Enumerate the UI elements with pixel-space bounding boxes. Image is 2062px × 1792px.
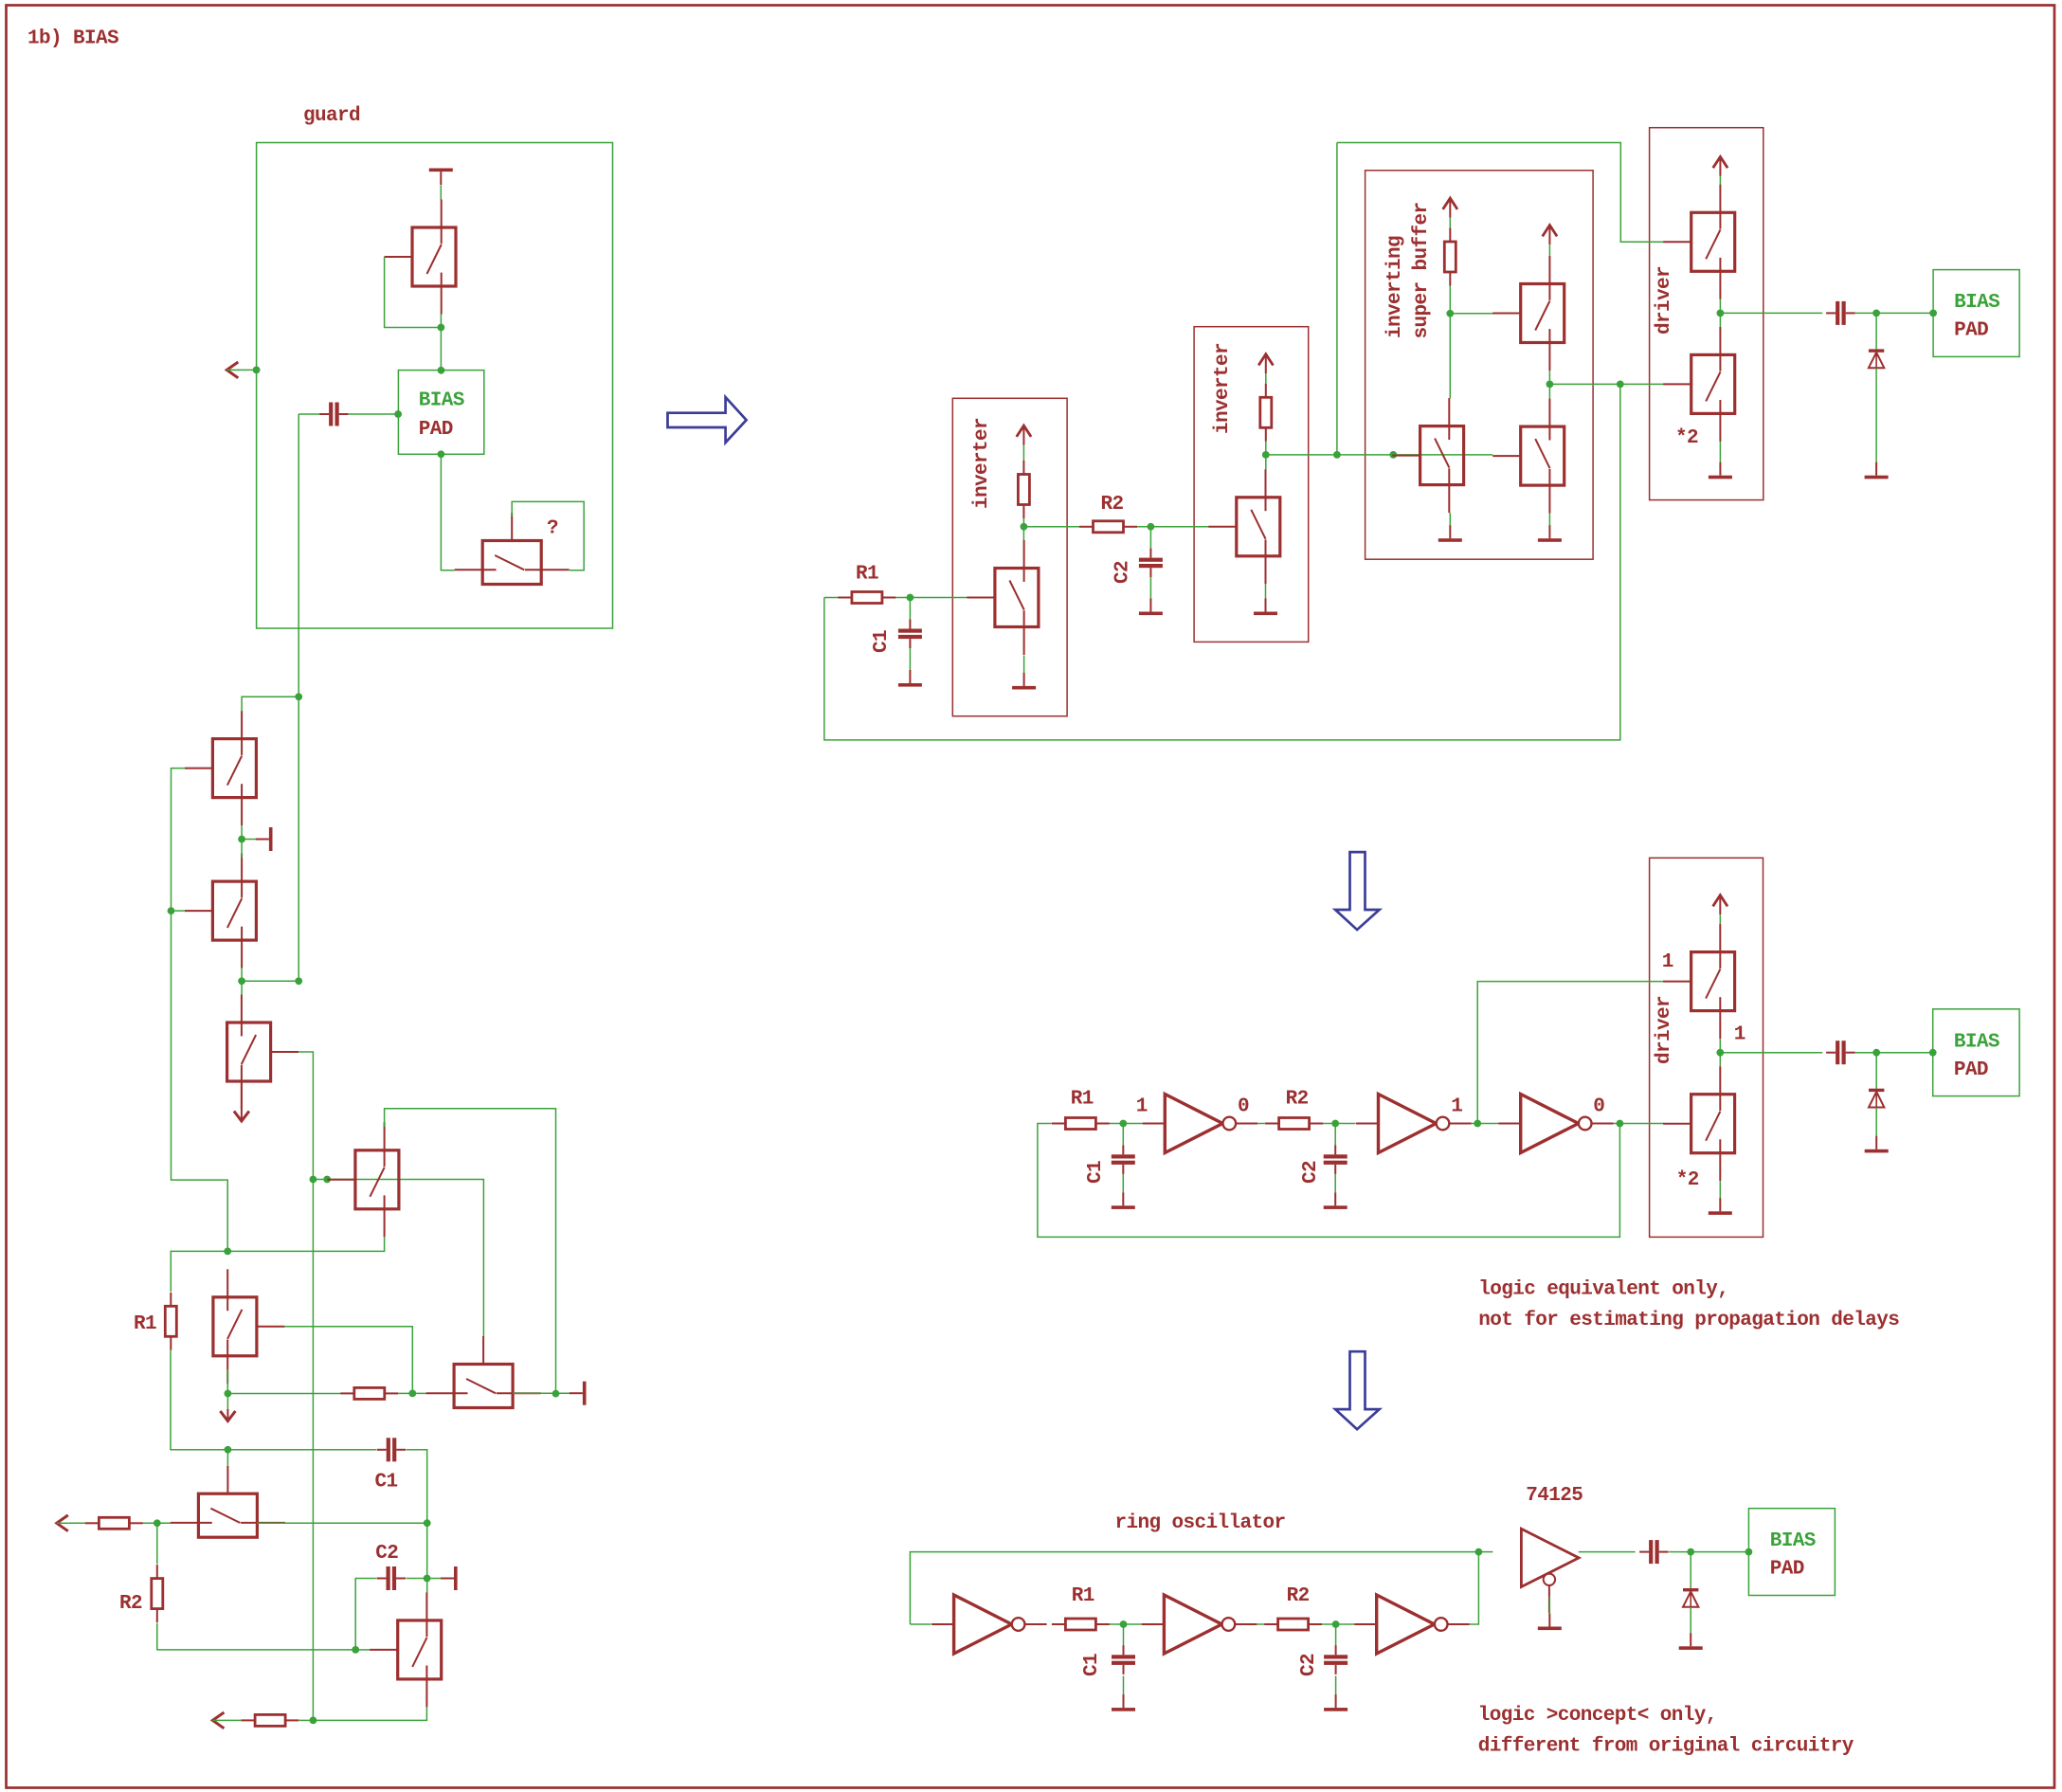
- wire R1 to inverter1 gate: [895, 597, 968, 599]
- ground diode C: [1865, 1136, 1889, 1153]
- wire sb stage1 down: [1449, 314, 1451, 399]
- wire cap to pad B: [1855, 312, 1933, 314]
- wire inv3 out up to feedback: [1470, 1552, 1479, 1624]
- switch transistor inverter2: [1208, 469, 1280, 584]
- wire vertical to top: [1336, 143, 1338, 455]
- wire gate row to T7 gate: [313, 1180, 483, 1337]
- svg-text:BIAS: BIAS: [1770, 1530, 1816, 1552]
- sb lower right transistor: [1492, 399, 1565, 514]
- net arrow down (T4 source): [234, 1112, 249, 1122]
- wire ? gate loop: [512, 501, 584, 570]
- svg-text:guard: guard: [303, 105, 360, 127]
- capacitor C2 (osc B): [1139, 549, 1163, 578]
- wire sb out to driver1 bottom gate: [1549, 383, 1663, 385]
- wire row 1470 left: [227, 1393, 340, 1395]
- svg-text:1: 1: [1662, 951, 1673, 973]
- guard loop wire: [257, 143, 613, 629]
- resistor (row 1470): [340, 1387, 398, 1399]
- frame driver 2: [1650, 858, 1764, 1237]
- svg-text:?: ?: [547, 518, 558, 540]
- svg-text:0: 0: [1238, 1096, 1249, 1118]
- output capacitor B: [1826, 301, 1855, 325]
- load resistor inverter1: [1018, 461, 1029, 518]
- wire bar to T1 drain: [440, 186, 442, 201]
- substrate bar C2: [441, 1566, 458, 1590]
- junction R1/C1 D: [1120, 1620, 1128, 1628]
- ground sb right: [1538, 525, 1562, 542]
- ground diode B: [1865, 462, 1889, 480]
- junction diode B: [1872, 310, 1880, 317]
- wire T5 source row: [227, 1237, 384, 1251]
- wire T9 source to bottom row: [313, 1707, 426, 1720]
- buffer 74125: [1521, 1529, 1579, 1613]
- wire C2 right: [407, 1578, 442, 1580]
- junction pad4 left: [1745, 1548, 1753, 1556]
- junction T1 source/gate: [438, 324, 445, 332]
- driver1 top transistor: [1663, 185, 1735, 299]
- junction diode C: [1872, 1049, 1880, 1057]
- wire up to driver2 top gate: [1477, 982, 1664, 1124]
- svg-text:PAD: PAD: [419, 419, 453, 441]
- svg-text:C1: C1: [1081, 1654, 1103, 1676]
- wire T4 gate down: [298, 1052, 313, 1180]
- wire to R1: [171, 1251, 227, 1292]
- net arrow left (guard): [226, 362, 239, 378]
- svg-text:inverter: inverter: [971, 418, 993, 509]
- junction inv3 out: [1617, 1120, 1624, 1128]
- svg-text:C1: C1: [871, 630, 893, 653]
- svg-text:1: 1: [1734, 1023, 1745, 1045]
- supply bar above T1: [429, 169, 453, 186]
- resistor R1 (C): [1052, 1118, 1110, 1130]
- ground C2 B: [1139, 599, 1163, 616]
- wire to vertical x315: [242, 980, 298, 982]
- wire sb stage1 to upper right gate: [1450, 313, 1492, 315]
- wire T7 right: [513, 1392, 570, 1394]
- inverter gate 2 (D): [1142, 1595, 1257, 1654]
- junction driver1 out: [1717, 310, 1725, 317]
- wire to C1 B: [909, 598, 911, 620]
- wire cap to pad C: [1855, 1052, 1933, 1054]
- wire T6 source: [226, 1369, 228, 1394]
- switch transistor inverter1: [967, 540, 1039, 655]
- ground C1 D: [1112, 1694, 1135, 1711]
- junction pad left: [394, 410, 402, 418]
- wire R2 to inverter2: [1137, 526, 1209, 528]
- diode D: [1683, 1588, 1698, 1607]
- vcc arrow driver2: [1713, 896, 1727, 915]
- frame inverter 1: [952, 398, 1067, 715]
- junction driver2 out: [1716, 1049, 1724, 1057]
- wire sb right mid: [1548, 371, 1550, 399]
- junction feedback/74125 input: [1475, 1548, 1483, 1556]
- ground inverter2: [1254, 599, 1277, 616]
- load resistor inverter2: [1260, 384, 1272, 442]
- BIAS PAD 4: [1748, 1509, 1835, 1596]
- ground driver2: [1709, 1198, 1732, 1215]
- transistor T6: [213, 1269, 285, 1384]
- wire feedback loop B: [824, 384, 1620, 740]
- junction R2/C2 B: [1148, 523, 1155, 531]
- junction sb output: [1546, 381, 1554, 389]
- inverter gate 3 (C): [1498, 1095, 1614, 1153]
- wire T3 source down: [241, 968, 243, 995]
- transistor T4: [227, 995, 299, 1110]
- wire vert C1row-C2-T9: [426, 1523, 428, 1592]
- wire inv1 out to R2: [1023, 526, 1079, 528]
- wire cap left: [298, 413, 319, 415]
- resistor R1 (left): [165, 1293, 176, 1350]
- svg-text:inverting: inverting: [1384, 236, 1406, 338]
- svg-text:R1: R1: [1071, 1089, 1094, 1111]
- resistor R1 (D): [1052, 1619, 1110, 1630]
- capacitor C2 (C): [1324, 1145, 1348, 1174]
- vcc arrow inverter2: [1258, 354, 1273, 374]
- junction inverter2 out: [1262, 451, 1270, 459]
- wire T1 gate loop: [385, 257, 442, 328]
- svg-text:PAD: PAD: [1770, 1559, 1804, 1581]
- svg-text:PAD: PAD: [1954, 1059, 1988, 1081]
- svg-text:inverter: inverter: [1212, 343, 1234, 434]
- sb lower left transistor: [1392, 398, 1464, 513]
- svg-text:0: 0: [1593, 1096, 1604, 1118]
- svg-text:super buffer: super buffer: [1411, 202, 1433, 338]
- resistor R2 (left): [152, 1565, 163, 1622]
- wire feedback loop C: [1038, 1124, 1620, 1238]
- junction R1/C1 C: [1119, 1120, 1127, 1128]
- wire T2 source to T3 drain: [241, 825, 243, 859]
- wire driver2 mid: [1719, 1039, 1721, 1066]
- junction guard left: [253, 367, 261, 374]
- wire C1 right down: [407, 1450, 427, 1523]
- inverter gate 1 (D): [932, 1595, 1047, 1654]
- junction T7 right: [552, 1390, 560, 1398]
- junction T6 source row: [225, 1390, 232, 1398]
- resistor R2 (D): [1264, 1619, 1322, 1630]
- resistor R2 (osc B): [1079, 521, 1137, 533]
- svg-text:*2: *2: [1675, 427, 1698, 449]
- resistor (bottom row): [242, 1714, 299, 1726]
- svg-text:logic >concept< only,: logic >concept< only,: [1478, 1705, 1717, 1727]
- wire T2 drain to vertical: [242, 697, 298, 711]
- resistor (arrow row T8): [85, 1517, 143, 1529]
- junction vertical/T2: [295, 693, 302, 700]
- ground C2 D: [1324, 1694, 1348, 1711]
- wire T5 drain loop: [385, 1109, 556, 1395]
- wire inv2 out to super buffer: [1266, 454, 1492, 456]
- substrate bar T7: [570, 1382, 587, 1405]
- svg-text:R1: R1: [134, 1313, 156, 1335]
- ground driver1: [1709, 462, 1732, 480]
- net arrow left (bottom): [212, 1712, 225, 1729]
- junction node x240: [224, 1248, 231, 1256]
- frame inverter 2: [1194, 327, 1309, 643]
- svg-text:C2: C2: [1298, 1654, 1320, 1676]
- blue arrow right: [668, 397, 747, 443]
- transistor T3: [185, 854, 257, 968]
- junction sb-left gate pin: [1389, 451, 1397, 459]
- svg-text:logic equivalent only,: logic equivalent only,: [1478, 1278, 1728, 1300]
- wire inv3 out to driver2 bottom gate: [1614, 1123, 1664, 1125]
- BIAS PAD 3: [1933, 1009, 2019, 1096]
- junction T3 gate: [168, 907, 175, 914]
- capacitor guard coupling: [319, 403, 349, 426]
- wire T6 gate down: [284, 1327, 412, 1394]
- svg-text:PAD: PAD: [1954, 320, 1988, 342]
- svg-text:driver: driver: [1654, 996, 1675, 1064]
- junction vertical bottom: [295, 977, 302, 985]
- svg-text:R2: R2: [1286, 1089, 1309, 1111]
- svg-text:C2: C2: [1300, 1161, 1322, 1184]
- svg-text:74125: 74125: [1526, 1485, 1583, 1507]
- svg-text:driver: driver: [1654, 266, 1675, 335]
- diode B: [1869, 349, 1884, 368]
- wire T8 right to C1 vert: [257, 1522, 426, 1524]
- svg-text:R2: R2: [1287, 1585, 1310, 1607]
- junction bottom row: [310, 1717, 317, 1725]
- wire top to driver1 top gate: [1337, 143, 1664, 243]
- diode C: [1869, 1089, 1884, 1108]
- wire cap right to pad: [349, 413, 398, 415]
- transistor T7: [426, 1336, 541, 1408]
- junction R2/C2 D: [1332, 1620, 1340, 1628]
- wire to T8: [143, 1522, 171, 1524]
- svg-text:1b) BIAS: 1b) BIAS: [27, 28, 118, 50]
- wire pad bottom to ? transistor: [441, 454, 454, 570]
- svg-text:C2: C2: [1112, 561, 1134, 584]
- capacitor C1 (C): [1112, 1145, 1135, 1174]
- resistor R1 (osc B): [838, 592, 895, 604]
- junction pad2 left: [1929, 310, 1937, 317]
- svg-text:C2: C2: [375, 1543, 398, 1565]
- junction inverter1 out: [1021, 523, 1028, 531]
- wire driver1 out to cap: [1720, 312, 1822, 314]
- junction R1/C1 B: [907, 594, 914, 602]
- junction T8 gate: [225, 1446, 232, 1454]
- capacitor C2 (left): [377, 1566, 407, 1590]
- junction T2 source: [238, 836, 245, 843]
- ground 74125 enable: [1538, 1614, 1562, 1631]
- transistor T5: [327, 1122, 399, 1237]
- load resistor sb: [1444, 228, 1456, 286]
- wire C1 row left: [227, 1449, 376, 1451]
- wire 74125 out to cap: [1579, 1551, 1636, 1553]
- transistor T9: [370, 1592, 442, 1707]
- wire to diode C: [1875, 1053, 1877, 1089]
- blue arrow down (2): [1335, 1351, 1380, 1429]
- junction T3 source: [238, 977, 245, 985]
- wire to diode B: [1875, 313, 1877, 349]
- net arrow down (row 1470): [220, 1411, 235, 1421]
- svg-text:C1: C1: [1085, 1161, 1107, 1184]
- junction sb out / feedback: [1617, 381, 1624, 389]
- inverter gate 2 (C): [1356, 1095, 1472, 1153]
- wire long vertical from cap: [298, 414, 299, 697]
- wire driver1 mid: [1719, 299, 1721, 327]
- junction C2 right: [424, 1575, 431, 1583]
- junction pad bottom: [438, 450, 445, 458]
- svg-text:BIAS: BIAS: [1954, 1031, 1999, 1053]
- svg-text:ring oscillator: ring oscillator: [1115, 1512, 1286, 1534]
- transistor T1 (guard top): [385, 200, 457, 315]
- ground C1 C: [1112, 1192, 1135, 1209]
- svg-text:C1: C1: [375, 1472, 398, 1493]
- wire T3 gate: [172, 910, 185, 912]
- transistor T2: [185, 711, 257, 825]
- vcc arrow driver1: [1713, 156, 1727, 176]
- inverter gate 1 (C): [1143, 1095, 1258, 1153]
- wire arrow to guard: [238, 369, 257, 371]
- wire long vertical x330: [312, 1180, 314, 1721]
- ground sb left: [1438, 525, 1462, 542]
- wire down to R2: [156, 1523, 158, 1564]
- frame inverting super buffer: [1366, 171, 1594, 559]
- junction T6 gate/row: [408, 1390, 416, 1398]
- substrate bar T2/T3: [256, 827, 273, 851]
- vcc arrow inverter1: [1017, 425, 1031, 445]
- BIAS PAD 1 (guard): [398, 371, 483, 455]
- svg-text:BIAS: BIAS: [1954, 292, 1999, 314]
- sb upper right transistor: [1492, 256, 1565, 371]
- svg-text:1: 1: [1451, 1096, 1462, 1118]
- wire driver2 out to cap: [1720, 1052, 1822, 1054]
- output capacitor D: [1639, 1540, 1669, 1564]
- vcc arrow sb: [1443, 198, 1457, 218]
- capacitor C1 (left): [377, 1438, 407, 1461]
- driver1 bottom transistor: [1663, 327, 1735, 442]
- wire cap to pad D: [1669, 1551, 1748, 1553]
- ground diode D: [1679, 1633, 1703, 1650]
- junction T9 gate: [352, 1646, 359, 1654]
- wire vertical x315: [298, 697, 299, 981]
- svg-text:R1: R1: [856, 564, 878, 586]
- capacitor C1 (D): [1112, 1645, 1135, 1674]
- wire T8 gate stub: [226, 1450, 228, 1466]
- transistor ? (guard bottom): [455, 513, 570, 585]
- wire row 1470 right: [398, 1392, 425, 1394]
- svg-text:different from original circui: different from original circuitry: [1478, 1735, 1854, 1757]
- vcc arrow sb right: [1543, 226, 1557, 245]
- junction R2/C2 C: [1331, 1120, 1339, 1128]
- driver2 bottom transistor: [1663, 1066, 1735, 1181]
- BIAS PAD 2: [1933, 270, 2019, 357]
- ground C2 C: [1324, 1192, 1348, 1209]
- resistor R2 (C): [1265, 1118, 1323, 1130]
- blue arrow down (1): [1335, 852, 1380, 930]
- net arrow left (row T8): [57, 1515, 69, 1531]
- wire R1 down to C1 row: [171, 1350, 227, 1450]
- capacitor C2 (D): [1324, 1645, 1348, 1674]
- junction diode D: [1687, 1548, 1694, 1556]
- svg-text:1: 1: [1136, 1096, 1148, 1118]
- wire up to C2: [355, 1579, 376, 1650]
- svg-text:not for estimating propagation: not for estimating propagation delays: [1478, 1310, 1899, 1331]
- junction pad top: [438, 367, 445, 374]
- junction T5 gate pin: [323, 1176, 331, 1184]
- junction sb stage1: [1446, 310, 1454, 317]
- wire to substrate bar: [242, 839, 257, 841]
- wire to diode D: [1690, 1552, 1691, 1588]
- junction C1/T8 row: [424, 1519, 431, 1527]
- transistor T8: [171, 1466, 285, 1538]
- wire to 74125: [1478, 1551, 1492, 1553]
- junction feed to driver top: [1333, 451, 1341, 459]
- junction pad3 left: [1929, 1049, 1937, 1057]
- inverter gate 3 (D): [1354, 1595, 1470, 1654]
- driver2 top transistor: [1663, 924, 1735, 1039]
- svg-text:R1: R1: [1072, 1585, 1094, 1607]
- output capacitor C: [1826, 1041, 1855, 1064]
- wire into inv1 D: [910, 1623, 931, 1625]
- svg-text:R2: R2: [1101, 494, 1124, 516]
- capacitor C1 (osc B): [898, 620, 922, 649]
- frame driver 1: [1650, 128, 1764, 500]
- svg-text:BIAS: BIAS: [419, 390, 464, 412]
- svg-text:R2: R2: [119, 1593, 142, 1615]
- wire gate bus left: [172, 769, 228, 1252]
- junction gate row left: [310, 1176, 317, 1184]
- wire feedback top D: [910, 1552, 1478, 1624]
- wire R2 bottom row: [157, 1623, 355, 1650]
- ground inverter1: [1012, 673, 1036, 690]
- junction R2 top row: [154, 1519, 161, 1527]
- ground C1 B: [898, 670, 922, 687]
- svg-text:*2: *2: [1676, 1169, 1699, 1191]
- junction feedback to driver2 top: [1474, 1120, 1481, 1128]
- wire T1 source to pad: [440, 315, 442, 371]
